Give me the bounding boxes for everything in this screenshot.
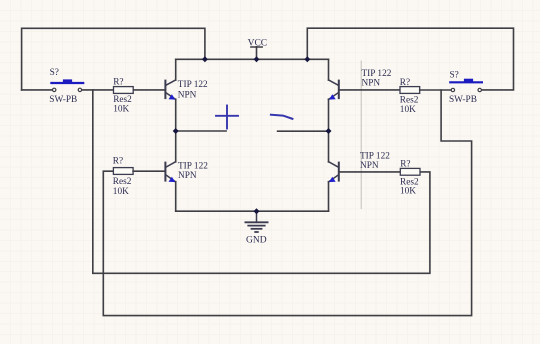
svg-text:SW-PB: SW-PB: [49, 95, 77, 105]
node B right motor terminal: [278, 130, 329, 132]
wire top-left resistor to Q1 base: [133, 89, 164, 91]
svg-text:S?: S?: [50, 68, 59, 78]
svg-text:R?: R?: [400, 159, 410, 169]
wire left button left: [22, 89, 53, 91]
svg-text:TIP 122: TIP 122: [178, 80, 208, 90]
junction at rail VCC: [254, 56, 260, 62]
node A left motor terminal: [176, 130, 226, 132]
svg-text:10K: 10K: [113, 105, 129, 115]
wire left riser to bottom rail 1: [93, 90, 430, 273]
svg-text:NPN: NPN: [360, 161, 379, 171]
wire Q2 base to resistor: [340, 89, 400, 91]
wire bottom-left resistor to Q3 base: [133, 170, 165, 172]
svg-text:TIP 122: TIP 122: [360, 151, 390, 161]
svg-text:VCC: VCC: [248, 39, 268, 49]
transistor Q4 TIP122 NPN bottom-right: [329, 131, 391, 211]
resistor R? bottom-left Res2 10K: [113, 156, 133, 197]
svg-text:Res2: Res2: [113, 95, 132, 105]
svg-text:Res2: Res2: [113, 177, 132, 187]
svg-text:R?: R?: [113, 77, 123, 87]
ground GND: [245, 211, 267, 232]
transistor Q3 TIP122 NPN bottom-left: [165, 131, 208, 211]
wire emitter rail to GND: [176, 210, 329, 212]
junction at rail x307: [304, 56, 310, 62]
wire Q4 base to resistor: [340, 171, 401, 173]
wire VCC rail: [176, 58, 329, 60]
wire right junction riser to bottom rail 2: [103, 90, 471, 316]
switch S? right SW-PB: [449, 70, 482, 105]
wire top-right loop: [307, 28, 513, 90]
wire resistor to right button: [420, 89, 452, 91]
svg-text:R?: R?: [400, 78, 410, 88]
svg-text:GND: GND: [246, 235, 267, 245]
svg-text:10K: 10K: [113, 187, 129, 197]
svg-text:NPN: NPN: [362, 79, 381, 89]
svg-text:NPN: NPN: [178, 171, 197, 181]
svg-text:10K: 10K: [400, 187, 416, 197]
wire top-left loop: [22, 28, 205, 90]
junction GND rail: [254, 208, 260, 214]
junction at rail x205: [202, 56, 208, 62]
svg-text:NPN: NPN: [178, 90, 197, 100]
resistor R? top-right Res2 10K: [400, 78, 420, 115]
transistor Q2 TIP122 NPN top-right: [329, 59, 392, 131]
resistor R? top-left Res2 10K: [113, 77, 133, 114]
svg-text:SW-PB: SW-PB: [449, 95, 477, 105]
svg-text:R?: R?: [113, 156, 123, 166]
switch S? left SW-PB: [49, 68, 83, 105]
svg-text:TIP 122: TIP 122: [178, 162, 208, 172]
svg-text:S?: S?: [450, 70, 459, 80]
wire left button to resistor: [82, 89, 114, 91]
transistor Q1 TIP122 NPN top-left: [165, 59, 208, 131]
svg-text:10K: 10K: [400, 105, 416, 115]
minus marker: [271, 115, 293, 119]
power VCC: [251, 47, 262, 60]
junction node B: [326, 128, 332, 134]
faint leftover gray line: [360, 61, 362, 209]
junction node A: [173, 128, 179, 134]
svg-text:Res2: Res2: [400, 95, 419, 105]
resistor R? bottom-right Res2 10K: [400, 159, 420, 196]
junction dots: [173, 56, 332, 214]
plus marker: [216, 106, 238, 129]
svg-text:TIP 122: TIP 122: [362, 69, 392, 79]
